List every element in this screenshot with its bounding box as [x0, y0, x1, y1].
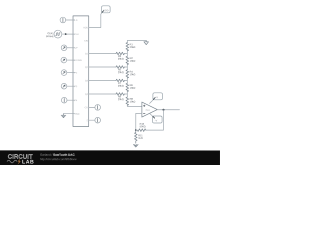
resistor R3 20k (bit 2R) — [116, 52, 124, 55]
wire — [126, 91, 128, 97]
resistor R5 20k — [116, 66, 124, 69]
wire — [67, 47, 75, 49]
flag V- supply — [152, 116, 162, 123]
wire ladder to op-amp + input — [127, 104, 142, 106]
wire op-amp V+ supply — [150, 100, 154, 104]
flag VDD node name — [102, 6, 111, 13]
wire — [126, 77, 128, 83]
pin labels inside IC — [75, 19, 89, 122]
wire op-amp V- supply — [150, 114, 153, 117]
op-amp OA1 — [142, 102, 157, 117]
wire GND pin left — [63, 113, 74, 115]
svg-text:CO: CO — [85, 106, 89, 109]
svg-text:20kΩ: 20kΩ — [118, 71, 124, 74]
svg-text:UP: UP — [75, 47, 79, 50]
wire — [126, 50, 128, 56]
terminal circle right ZERO — [95, 117, 101, 123]
flag V+ supply — [153, 93, 163, 100]
arrowhead on CLK wire — [65, 33, 67, 35]
node feedback junction — [135, 129, 137, 131]
svg-text:10kΩ: 10kΩ — [130, 87, 136, 90]
svg-text:CIN: CIN — [84, 39, 88, 42]
terminal circle left row2 — [61, 57, 67, 63]
svg-text:50 kHz: 50 kHz — [46, 35, 54, 38]
wire Q2 row — [89, 66, 116, 68]
svg-text:10kΩ: 10kΩ — [130, 60, 136, 63]
wire — [67, 59, 75, 61]
wire output — [157, 109, 179, 111]
wire — [126, 64, 128, 70]
resistor R6 series vertical — [126, 83, 129, 91]
svg-text:CLK: CLK — [75, 33, 80, 36]
wire ladder top — [127, 41, 146, 43]
terminal circle left row5 — [61, 97, 67, 103]
svg-text:LD: LD — [75, 19, 78, 22]
svg-text:VDD: VDD — [103, 9, 108, 12]
watermark bar — [0, 150, 220, 165]
svg-text:VDD: VDD — [83, 26, 88, 29]
svg-text:20kΩ: 20kΩ — [130, 46, 136, 49]
wire — [67, 99, 74, 101]
svg-text:LAB: LAB — [22, 159, 34, 165]
svg-text:DOWN: DOWN — [75, 59, 82, 62]
wire ZERO pin right — [89, 119, 95, 121]
wire Q1 row — [89, 52, 116, 54]
resistor R4 series vertical — [126, 70, 129, 78]
svg-text:1kΩ: 1kΩ — [138, 137, 143, 140]
resistor R10 feedback — [137, 129, 145, 132]
resistor R8 series vertical — [126, 97, 129, 105]
clock source CLK1 — [54, 30, 62, 38]
node circle terminal top-left — [60, 17, 66, 23]
svg-text:10kΩ: 10kΩ — [130, 101, 136, 104]
svg-text:-V: -V — [155, 119, 158, 122]
ground symbol op-amp — [133, 145, 138, 148]
svg-text:20kΩ: 20kΩ — [118, 98, 124, 101]
svg-text:GND: GND — [75, 113, 80, 116]
terminal circle left row1 — [61, 45, 67, 51]
svg-text:+V: +V — [155, 96, 158, 99]
wire — [67, 85, 75, 87]
label CLK1 50kHz — [46, 32, 54, 38]
wire CO pin right — [89, 106, 95, 108]
junction output node — [162, 109, 164, 111]
wire pin stub left y20 — [66, 19, 75, 21]
wire feedback right leg — [146, 110, 164, 130]
wire — [67, 72, 75, 74]
wire Q4 row — [89, 93, 116, 95]
resistor R2 series vertical — [126, 56, 129, 64]
wire Q3 row — [89, 79, 116, 81]
ground ladder top — [144, 41, 149, 45]
resistor R9 20k — [116, 93, 124, 96]
wire CLK1 to IC pin — [62, 33, 75, 35]
wire inverting input — [136, 113, 142, 130]
terminal circle left row3 — [61, 70, 67, 76]
labels ladder resistors — [118, 43, 146, 140]
IC U1 counter box — [73, 16, 89, 127]
resistor R11 to ground vertical — [134, 130, 137, 143]
svg-text:http://circuitlab.com/9fb56vw: http://circuitlab.com/9fb56vw — [40, 157, 77, 161]
terminal circle left row4 — [61, 83, 67, 89]
svg-text:10kΩ: 10kΩ — [130, 73, 136, 76]
terminal circle right CO — [95, 105, 101, 111]
resistor R7 20k — [116, 79, 124, 82]
svg-text:500Ω: 500Ω — [140, 125, 146, 128]
ground symbol left — [61, 114, 66, 118]
wire VDD pin to flag — [89, 13, 102, 28]
resistor R1 terminator vertical — [126, 43, 129, 51]
svg-text:20kΩ: 20kΩ — [118, 85, 124, 88]
svg-text:20kΩ: 20kΩ — [118, 58, 124, 61]
